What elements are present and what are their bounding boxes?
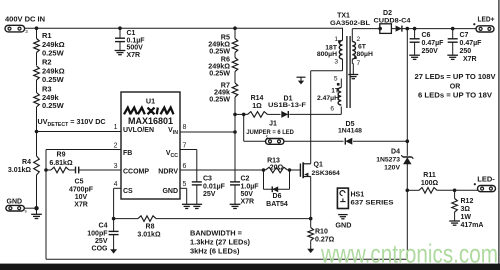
svg-text:637 SERIES: 637 SERIES xyxy=(351,200,395,207)
svg-text:C7: C7 xyxy=(460,32,469,39)
svg-text:3.01kΩ: 3.01kΩ xyxy=(137,232,161,239)
diode D6 BAT54 xyxy=(272,186,278,192)
node J1 tap xyxy=(242,113,246,117)
svg-text:VIN: VIN xyxy=(168,127,178,136)
right border line xyxy=(498,0,500,264)
wire NDRV to gate xyxy=(180,169,264,171)
svg-text:UVLO/EN: UVLO/EN xyxy=(123,127,154,134)
svg-text:MAX16801: MAX16801 xyxy=(128,116,173,126)
resistor R2 xyxy=(34,66,40,80)
svg-text:1Ω: 1Ω xyxy=(252,103,262,110)
svg-text:100pF: 100pF xyxy=(87,230,108,237)
wire J1 to D5 xyxy=(284,140,343,142)
wire FB to left column xyxy=(46,149,121,151)
diode D5 1N4148 xyxy=(345,138,352,145)
transistor Q1 2SK3664 xyxy=(299,164,301,177)
svg-text:400V DC IN: 400V DC IN xyxy=(5,14,45,23)
wire bottom rail xyxy=(46,258,407,260)
node R14 tee xyxy=(233,113,237,117)
node R13 left xyxy=(262,168,266,172)
diode D4 1N5273 zener xyxy=(403,156,412,158)
ground below C6 xyxy=(409,54,420,56)
resistor R12 xyxy=(454,190,456,198)
ground below R10 xyxy=(310,241,312,248)
resistor R13 xyxy=(266,167,288,173)
wire R6-R7 xyxy=(234,72,236,84)
wire rail into primary pin 1 xyxy=(342,27,345,29)
resistor R14 xyxy=(248,112,268,118)
wire source down xyxy=(310,177,312,219)
inductor TX1 primary xyxy=(339,41,342,60)
svg-text:3kHz (6 LEDs): 3kHz (6 LEDs) xyxy=(190,249,240,256)
resistor R6 xyxy=(232,58,238,72)
node CS/R8/C4 junction xyxy=(112,217,116,221)
wire R14 node to VIN node xyxy=(234,114,236,132)
floating chassis ground near TX xyxy=(297,76,306,78)
svg-text:R10: R10 xyxy=(315,228,328,235)
svg-text:0.47µF: 0.47µF xyxy=(422,40,445,47)
svg-text:D2: D2 xyxy=(383,10,392,17)
node R12 tap xyxy=(453,189,457,193)
svg-text:LED-: LED- xyxy=(477,176,495,183)
svg-text:GND: GND xyxy=(162,188,178,195)
svg-text:BAT54: BAT54 xyxy=(266,201,288,208)
svg-text:LED+: LED+ xyxy=(478,16,495,23)
wire zener column to bottom rail xyxy=(406,190,408,259)
ground below HS1 xyxy=(338,214,348,216)
svg-text:120V: 120V xyxy=(384,164,400,171)
svg-text:250V: 250V xyxy=(422,48,439,55)
svg-text:NDRV: NDRV xyxy=(158,169,178,176)
svg-text:GND: GND xyxy=(335,221,351,230)
resistor R10 xyxy=(310,219,312,228)
svg-text:TX1: TX1 xyxy=(337,13,350,20)
svg-text:C2: C2 xyxy=(241,175,250,182)
svg-text:OR: OR xyxy=(450,84,461,91)
svg-text:417mA: 417mA xyxy=(461,222,484,229)
wire C2 to ground xyxy=(234,185,236,204)
svg-text:0.25W: 0.25W xyxy=(42,48,65,57)
jumper J1 oval xyxy=(266,139,284,145)
diode D1 US1B-13-F xyxy=(281,111,288,118)
svg-text:800µH: 800µH xyxy=(317,51,337,58)
op-amp U1 MAX16801 body xyxy=(121,92,180,199)
svg-text:500V: 500V xyxy=(127,45,144,52)
svg-text:0.25W: 0.25W xyxy=(209,69,230,78)
svg-text:U1: U1 xyxy=(146,96,155,105)
svg-text:R4: R4 xyxy=(22,159,31,166)
wire C7 to ground xyxy=(452,42,454,55)
svg-text:CCOMP: CCOMP xyxy=(123,169,149,176)
svg-text:3Ω: 3Ω xyxy=(461,206,471,213)
node FB/R9 junction xyxy=(44,168,48,172)
capacitor C6 xyxy=(414,29,416,39)
wire D1 to bias pin 6 xyxy=(289,113,341,115)
ground below pin 7 xyxy=(348,74,358,76)
node VIN tee xyxy=(233,130,237,134)
svg-text:R11: R11 xyxy=(423,172,436,179)
svg-text:R14: R14 xyxy=(251,95,264,102)
node top-rail/R1 junction xyxy=(35,26,39,30)
svg-text:VCC: VCC xyxy=(166,150,178,159)
svg-text:2: 2 xyxy=(114,142,118,149)
bottom black bar xyxy=(0,264,500,270)
diode D2 CUDD8-C4 xyxy=(380,24,392,34)
gnd connector oval xyxy=(6,205,24,211)
wire R5-R6 xyxy=(234,53,236,58)
node C7 tap xyxy=(451,27,455,31)
wire UVLO node to pin 1 xyxy=(37,131,122,133)
svg-text:J1: J1 xyxy=(269,121,277,128)
wire R2-R3 xyxy=(36,80,38,93)
svg-text:1: 1 xyxy=(334,36,338,43)
wire C1 to ground xyxy=(119,42,121,51)
svg-text:80µH: 80µH xyxy=(357,51,373,58)
node top-rail/R5 junction xyxy=(233,26,237,30)
wire FB column down xyxy=(45,150,47,260)
svg-text:0.47µF: 0.47µF xyxy=(460,40,483,47)
resistor R3 xyxy=(34,93,40,108)
ground below pin 5 xyxy=(182,203,192,205)
node source/R8/R10 xyxy=(309,217,313,221)
svg-text:FB: FB xyxy=(123,150,132,157)
ground below C7 xyxy=(447,54,458,56)
wire primary pin 3 xyxy=(342,59,344,71)
svg-text:CUDD8-C4: CUDD8-C4 xyxy=(374,18,411,25)
LED- pin mark xyxy=(474,183,476,185)
svg-text:1: 1 xyxy=(114,124,118,131)
wire bias pin 5 stub xyxy=(340,79,342,88)
svg-text:D4: D4 xyxy=(391,149,400,156)
inductor TX1 secondary xyxy=(352,42,355,60)
svg-text:X7R: X7R xyxy=(74,202,88,209)
wire C3 to ground xyxy=(196,185,198,204)
svg-text:3.01kΩ: 3.01kΩ xyxy=(8,167,32,174)
capacitor C2 xyxy=(230,181,240,183)
resistor R11 xyxy=(419,188,437,194)
svg-text:C6: C6 xyxy=(422,32,431,39)
wire C5 to pin 3 xyxy=(79,169,121,171)
wire R1-R2 xyxy=(36,53,38,66)
resistor R4 xyxy=(36,132,38,157)
svg-text:5: 5 xyxy=(183,181,187,188)
wire drain up to pin3 wire xyxy=(310,71,312,164)
bias winding dot xyxy=(337,83,340,86)
logo MAXIM xyxy=(124,108,174,115)
secondary winding dot xyxy=(354,56,357,59)
svg-text:2.47µH: 2.47µH xyxy=(317,95,339,102)
node zener tap xyxy=(406,27,410,31)
node R11 left xyxy=(406,189,410,193)
wire GND oval to R4 xyxy=(24,207,36,209)
svg-text:2: 2 xyxy=(357,36,361,43)
wire R9 to C5 xyxy=(69,169,76,171)
svg-text:5: 5 xyxy=(334,76,338,83)
wire D6 loop xyxy=(263,170,265,189)
wire C6 to ground xyxy=(414,42,416,55)
svg-text:0.25W: 0.25W xyxy=(42,75,65,84)
capacitor C1 xyxy=(115,37,125,39)
svg-text:R2: R2 xyxy=(42,58,52,67)
wire pin 4 to C4 column xyxy=(114,187,121,189)
capacitor C3 xyxy=(192,181,202,183)
wire zener to R11 node xyxy=(406,164,408,191)
ground below R12 xyxy=(454,212,456,221)
svg-text:1T: 1T xyxy=(331,88,339,95)
svg-text:US1B-13-F: US1B-13-F xyxy=(268,102,306,109)
resistor R9 xyxy=(51,167,69,173)
svg-text:0.1µF: 0.1µF xyxy=(127,37,146,44)
svg-text:0.25W: 0.25W xyxy=(209,95,230,104)
svg-text:X7R: X7R xyxy=(127,52,141,59)
svg-text:C4: C4 xyxy=(99,222,108,229)
node C6 tap xyxy=(413,27,417,31)
svg-text:C1: C1 xyxy=(127,30,136,37)
wire secondary pin 7 to ground xyxy=(351,59,353,64)
wire J1 branch xyxy=(243,114,245,141)
svg-text:250: 250 xyxy=(460,48,472,55)
svg-text:1N4148: 1N4148 xyxy=(338,128,362,135)
svg-text:1N5273: 1N5273 xyxy=(376,157,400,164)
svg-text:25V: 25V xyxy=(203,191,216,198)
resistor R1 xyxy=(34,39,40,53)
svg-text:R13: R13 xyxy=(267,157,280,164)
svg-text:D6: D6 xyxy=(273,193,282,200)
svg-text:6T: 6T xyxy=(358,44,367,51)
resistor R8 xyxy=(114,218,138,220)
svg-text:6 LEDs = UP TO 18V: 6 LEDs = UP TO 18V xyxy=(418,92,492,99)
svg-text:C5: C5 xyxy=(75,178,84,185)
svg-text:s: s xyxy=(25,209,28,214)
svg-text:GA3502-BL: GA3502-BL xyxy=(330,20,370,27)
svg-text:8: 8 xyxy=(183,124,187,131)
svg-text:4: 4 xyxy=(114,181,118,188)
node top-rail/C1 junction xyxy=(118,26,122,30)
svg-text:1.0µF: 1.0µF xyxy=(241,183,260,190)
wire 400V top rail xyxy=(25,27,343,29)
resistor R5 xyxy=(234,28,236,38)
wire C1 stub xyxy=(119,28,121,38)
capacitor C5 xyxy=(75,167,77,174)
ground below C2 xyxy=(230,203,241,205)
ground below C3 xyxy=(191,203,202,205)
wire R14 to D1 xyxy=(268,113,281,115)
heatsink HS1 box xyxy=(337,188,348,208)
svg-text:JUMPER = 6 LED: JUMPER = 6 LED xyxy=(246,129,294,136)
svg-text:20Ω: 20Ω xyxy=(270,164,284,171)
LED+ pin mark xyxy=(473,23,475,25)
svg-text:X7R: X7R xyxy=(463,56,477,63)
LED- connector xyxy=(478,186,496,192)
svg-text:HS1: HS1 xyxy=(351,191,365,198)
svg-text:2SK3664: 2SK3664 xyxy=(312,170,341,177)
svg-text:25V: 25V xyxy=(95,238,108,245)
wire D5 to zener node xyxy=(353,140,407,142)
node D5/zener junction xyxy=(406,139,410,143)
svg-text:C3: C3 xyxy=(203,175,212,182)
svg-text:100Ω: 100Ω xyxy=(421,180,439,187)
LED+ connector xyxy=(476,26,494,32)
svg-text:4700pF: 4700pF xyxy=(69,186,94,193)
svg-text:7: 7 xyxy=(357,60,361,67)
wire pin 7 to C3 xyxy=(180,149,197,151)
svg-text:3: 3 xyxy=(334,59,338,66)
svg-text:6: 6 xyxy=(183,163,187,170)
svg-text:R12: R12 xyxy=(461,198,474,205)
wire zener column xyxy=(406,29,408,156)
inductor TX1 bias xyxy=(338,88,341,105)
svg-text:Q1: Q1 xyxy=(314,162,323,169)
svg-text:50V: 50V xyxy=(241,191,254,198)
svg-text:7: 7 xyxy=(183,142,187,149)
capacitor C4 xyxy=(113,219,115,232)
svg-text:0.01µF: 0.01µF xyxy=(203,183,226,190)
svg-text:CS: CS xyxy=(123,188,133,195)
wire pin 5 to ground xyxy=(180,187,187,189)
svg-text:3: 3 xyxy=(114,163,118,170)
svg-text:1W: 1W xyxy=(461,214,472,221)
svg-text:BANDWIDTH =: BANDWIDTH = xyxy=(190,231,242,238)
wire secondary pin 2 xyxy=(351,29,353,42)
svg-text:R8: R8 xyxy=(146,223,155,230)
svg-text:27 LEDs = UP TO 108V: 27 LEDs = UP TO 108V xyxy=(415,74,496,81)
svg-text:1.3kHz (27 LEDs): 1.3kHz (27 LEDs) xyxy=(190,240,250,247)
wire to LED- connector xyxy=(455,189,478,191)
ground below C4 xyxy=(113,235,115,248)
svg-text:COG: COG xyxy=(92,246,109,253)
svg-text:6: 6 xyxy=(330,106,334,113)
svg-text:X7R: X7R xyxy=(241,199,255,206)
wire R7 to R14 node xyxy=(234,97,236,114)
capacitor C7 xyxy=(452,29,454,39)
wire VIN node down to C2 xyxy=(234,132,236,182)
svg-text:6.81kΩ: 6.81kΩ xyxy=(49,160,73,167)
transformer core xyxy=(346,36,348,108)
node R13 right xyxy=(288,168,292,172)
wire VIN node to pin 8 xyxy=(180,131,235,133)
primary winding dot xyxy=(338,40,341,43)
node UVLO junction xyxy=(35,130,39,134)
wire output rail xyxy=(402,28,476,30)
svg-text:0.25W: 0.25W xyxy=(42,101,65,110)
svg-text:10V: 10V xyxy=(75,194,88,201)
wire R3 to UVLO node xyxy=(36,107,38,132)
svg-text:R9: R9 xyxy=(57,152,66,159)
svg-text:UVDETECT = 310V DC: UVDETECT = 310V DC xyxy=(38,117,106,128)
ground below C1 xyxy=(115,50,126,52)
svg-text:3: 3 xyxy=(25,29,28,34)
resistor R7 xyxy=(232,83,238,97)
svg-text:GND: GND xyxy=(7,199,23,206)
svg-text:R1: R1 xyxy=(42,31,52,40)
ground below R4 xyxy=(36,208,38,214)
input connector J (400V DC IN) xyxy=(5,25,25,32)
node GND/R4 junction xyxy=(34,206,38,210)
